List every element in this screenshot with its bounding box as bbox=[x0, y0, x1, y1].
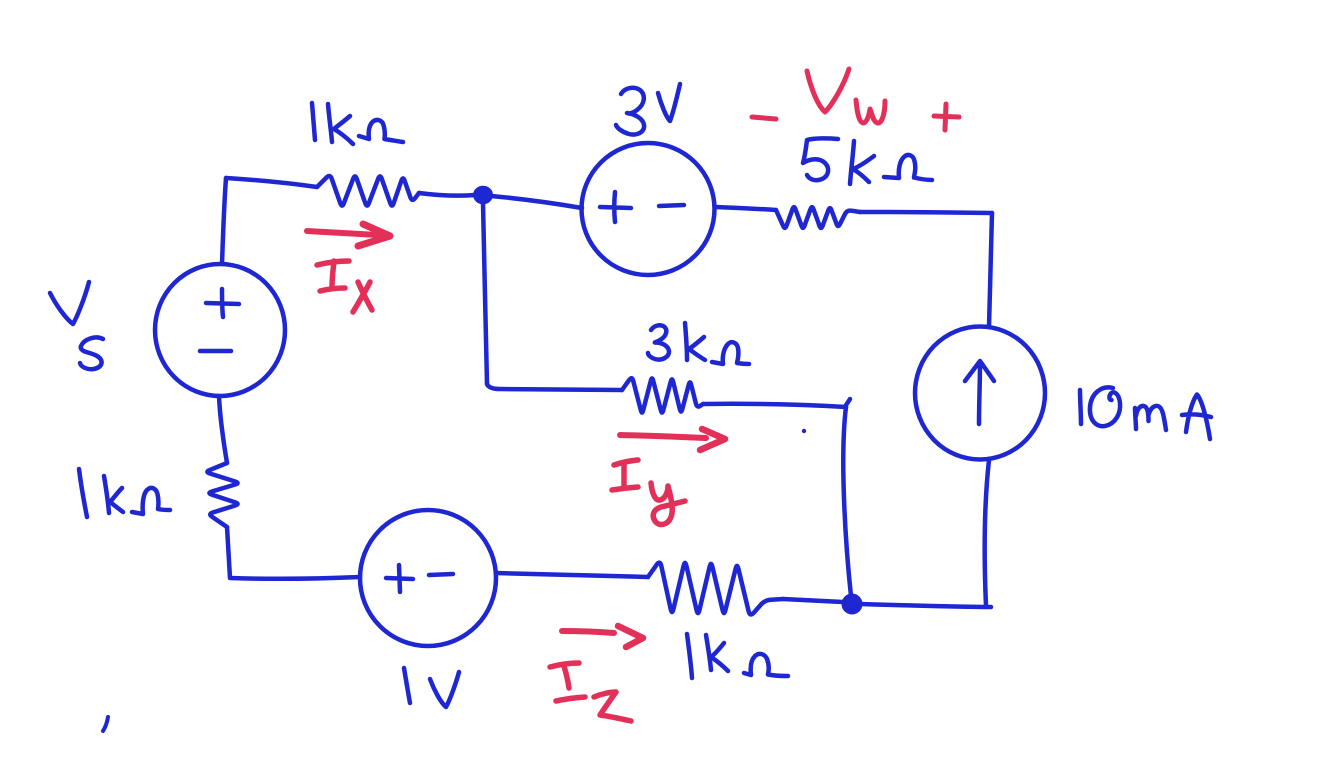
label 3kOhm: glyph Omega bbox=[712, 342, 749, 364]
plus sign inside V_S bbox=[206, 289, 239, 317]
resistor R4 1kOhm (bottom) bbox=[648, 563, 783, 615]
pen tick at mid-right corner bbox=[845, 399, 850, 407]
label V_S: glyph V bbox=[50, 282, 89, 324]
wire: U1 right to resistor R3 bbox=[715, 207, 776, 210]
label 1kOhm (bottom resistor): glyph 1 bbox=[687, 634, 692, 678]
label 1kOhm (top resistor): glyph 1 bbox=[312, 103, 315, 140]
node A junction dot bbox=[474, 187, 491, 203]
voltage source U2 1V circle (bottom) bbox=[360, 510, 496, 646]
stray dot (near mid-right) bbox=[802, 429, 806, 433]
red label Iy: glyph I bbox=[612, 460, 638, 490]
plus sign inside U2 bbox=[386, 565, 413, 592]
red label Vw: subscript w bbox=[856, 100, 885, 123]
wire: R1 right to node A bbox=[419, 193, 475, 196]
red plus sign (Vw polarity) bbox=[934, 104, 959, 130]
stray comma mark (bottom left) bbox=[103, 717, 108, 731]
label 5kOhm: glyph 5 bbox=[803, 138, 838, 180]
label 5kOhm: glyph k bbox=[850, 141, 874, 184]
arrow inside I1 (upward) bbox=[965, 361, 994, 424]
wire: R4 right to node B bbox=[783, 599, 843, 602]
red label Vw: glyph V bbox=[807, 69, 849, 112]
resistor R3 5kOhm (top right) bbox=[776, 207, 860, 228]
wire: mid horizontal corner to resistor R5 bbox=[487, 384, 622, 390]
wire: R3 right to top-right corner bbox=[860, 212, 992, 213]
label V_S: subscript S bbox=[80, 337, 103, 369]
wire: current source bottom down to bottom-right corner bbox=[985, 460, 989, 606]
wire: U2 right to resistor R4 bbox=[496, 573, 648, 577]
red label Ix: glyph I bbox=[317, 261, 349, 291]
wire: mid-right vertical down to node B bbox=[843, 407, 851, 596]
label 10mA: glyph 1 bbox=[1080, 390, 1081, 424]
wire: right vertical from corner down to current source top bbox=[989, 213, 992, 327]
minus sign inside U2 bbox=[429, 574, 453, 575]
wire: node A down to mid-left corner bbox=[483, 203, 487, 384]
red arrow Iy bbox=[620, 435, 706, 438]
label 1kOhm (top resistor): glyph Omega bbox=[359, 120, 403, 142]
wire: top-left vertical from corner down to Vs source top bbox=[222, 178, 226, 264]
label 1V (source U2): glyph V bbox=[430, 672, 459, 707]
wire: R5 right to mid-right corner bbox=[703, 404, 846, 407]
label 1kOhm (left resistor): glyph k bbox=[104, 476, 123, 513]
wire: R2 bottom to bottom-left corner then right to 1V source bbox=[227, 527, 360, 579]
label 1kOhm (left resistor): glyph Omega bbox=[132, 488, 170, 514]
red label Iy: subscript y bbox=[651, 483, 685, 524]
node B junction dot bbox=[843, 595, 861, 613]
minus sign inside U1 bbox=[659, 205, 684, 206]
red arrow Ix bbox=[307, 231, 378, 235]
red label Ix: subscript x bbox=[353, 282, 372, 312]
wire: V_S bottom to resistor R2 bbox=[219, 396, 227, 463]
voltage source U1 3V circle bbox=[582, 143, 715, 275]
label 1kOhm (left resistor): glyph 1 bbox=[79, 469, 87, 517]
resistor R2 1kOhm (left vertical) bbox=[207, 463, 237, 527]
label 10mA: glyph m bbox=[1135, 406, 1166, 430]
minus sign inside V_S bbox=[200, 349, 231, 354]
red label Iz: subscript z bbox=[594, 692, 631, 721]
label 1kOhm (bottom resistor): glyph Omega bbox=[744, 654, 788, 676]
voltage source V_S circle (left) bbox=[155, 264, 285, 396]
wire: top horizontal from corner to resistor R1 bbox=[226, 178, 317, 187]
wire: bottom-right horizontal from node B to corner bbox=[860, 604, 991, 607]
label 3kOhm: glyph 3 bbox=[648, 325, 669, 359]
wire: node A to 3V source left bbox=[491, 196, 582, 208]
label 1kOhm (top resistor): glyph k bbox=[328, 104, 353, 144]
label 3V (source U1): glyph V bbox=[658, 84, 680, 121]
label 5kOhm: glyph Omega bbox=[884, 155, 932, 180]
label 3V (source U1): glyph 3 bbox=[616, 88, 644, 135]
current source I1 10mA circle bbox=[915, 327, 1045, 460]
red label Iz: glyph I bbox=[550, 663, 585, 701]
label 3kOhm: glyph k bbox=[685, 323, 705, 360]
label 10mA: glyph 0 bbox=[1090, 387, 1120, 426]
red arrow Iz bbox=[562, 631, 614, 633]
red minus sign (Vw polarity) bbox=[752, 117, 776, 119]
label 1V (source U2): glyph 1 bbox=[404, 668, 410, 703]
resistor R5 3kOhm (middle) bbox=[622, 378, 703, 412]
label 1kOhm (bottom resistor): glyph k bbox=[706, 635, 728, 671]
plus sign inside U1 bbox=[600, 192, 631, 222]
label 10mA: glyph A bbox=[1182, 395, 1211, 440]
resistor R1 1kOhm (top) bbox=[317, 176, 419, 206]
